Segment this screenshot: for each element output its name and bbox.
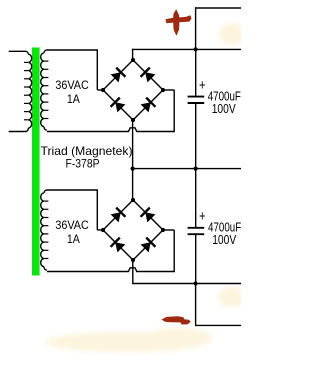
svg-text:+: + bbox=[199, 208, 206, 225]
wire: BR1 + vertex to top rail bbox=[132, 49, 134, 60]
T1 secondary 1 winding coil bbox=[41, 50, 49, 130]
transformer T1 core (green bar) bbox=[32, 48, 40, 276]
svg-text:F-378P: F-378P bbox=[66, 157, 100, 171]
wire: - output down and off right edge bbox=[195, 284, 241, 326]
highlighter smudge right-top bbox=[219, 23, 247, 45]
wire: secondary 2 top to BR2 left vertex bbox=[47, 189, 103, 230]
junction dot: mid rail left bbox=[131, 167, 135, 171]
capacitor C2 bottom lead bbox=[195, 234, 197, 283]
wire: secondary 1 bottom to BR1 right vertex (hops over center drop) bbox=[47, 90, 174, 132]
capacitor C1 plates bbox=[188, 97, 205, 103]
bridge rectifier BR2 diamond wiring bbox=[103, 200, 163, 260]
top rail (+) bbox=[132, 48, 241, 50]
wire: secondary 2 bottom to BR2 right vertex (hops over center drop) bbox=[47, 230, 174, 272]
capacitor C2 top lead bbox=[195, 169, 197, 228]
wire: BR1 - vertex down through mid rail to BR2 + vertex bbox=[132, 120, 134, 200]
capacitor C1 bottom lead bbox=[195, 103, 197, 169]
highlighter smudge bottom bbox=[46, 328, 212, 352]
mid rail (0V) bbox=[132, 168, 241, 170]
diode D2c bottom-left (- to AC) bbox=[111, 238, 126, 253]
junction dot: mid rail / C1 / C2 bbox=[194, 167, 198, 171]
T1 primary winding coil bbox=[24, 51, 32, 131]
T1 secondary 2 winding coil bbox=[41, 190, 49, 270]
diode D1b top-right (AC to +) bbox=[141, 68, 156, 83]
capacitor C1 top lead bbox=[195, 49, 197, 96]
svg-text:+: + bbox=[199, 77, 206, 94]
diode D2d bottom-right (- to AC) bbox=[141, 238, 156, 253]
svg-text:36VAC: 36VAC bbox=[55, 218, 89, 232]
T1 primary top lead bbox=[9, 50, 26, 52]
diode D2b top-right (AC to +) bbox=[141, 208, 156, 223]
diode D1a top-left (AC to +) bbox=[111, 68, 126, 83]
junction dots BR2 vertices bbox=[101, 198, 165, 262]
T1 primary bottom lead bbox=[9, 131, 26, 133]
svg-text:1A: 1A bbox=[67, 92, 80, 106]
bottom rail (-) bbox=[133, 283, 241, 285]
junction dots BR1 vertices bbox=[101, 58, 165, 122]
wire: + output up and off right edge bbox=[195, 7, 241, 49]
svg-text:1A: 1A bbox=[67, 232, 80, 246]
capacitor C2 plates bbox=[188, 228, 205, 234]
junction dot: top rail / C1 / + output bbox=[194, 47, 198, 51]
bridge rectifier BR1 diamond wiring bbox=[103, 60, 163, 120]
svg-text:100V: 100V bbox=[212, 233, 237, 247]
diode D2a top-left (AC to +) bbox=[111, 208, 126, 223]
wire: BR2 - vertex down to bottom rail bbox=[132, 260, 134, 284]
svg-text:100V: 100V bbox=[212, 102, 237, 116]
svg-text:36VAC: 36VAC bbox=[55, 78, 89, 92]
diode D1d bottom-right (- to AC) bbox=[141, 98, 156, 113]
highlighter smudge right-bottom bbox=[218, 287, 246, 307]
+ output marker (dark red hand-drawn) bbox=[166, 9, 192, 36]
- output marker (dark red hand-drawn) bbox=[162, 316, 191, 324]
wire: secondary 1 top to BR1 left vertex bbox=[47, 49, 103, 90]
junction dot: bottom rail / C2 / - output bbox=[194, 281, 198, 285]
diode D1c bottom-left (- to AC) bbox=[111, 98, 126, 113]
